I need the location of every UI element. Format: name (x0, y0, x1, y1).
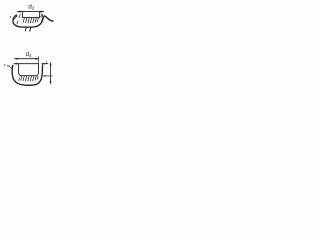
upper dimension line d4 (15, 58, 39, 60)
hatching left of wall (17, 14, 20, 24)
arrowhead right (dim d2) (41, 11, 44, 13)
groove right wall (39, 12, 41, 18)
arrowhead top (t) (50, 63, 52, 66)
arrowhead bottom (t) (50, 81, 52, 84)
arrowhead left (dim d2) (17, 11, 20, 13)
arrowhead left on surface line (14, 63, 17, 65)
dimension line d2 (18, 11, 44, 13)
shoulder surface line right (42, 63, 48, 65)
hatching below floor (bottom fig) (21, 76, 38, 81)
arrowhead on shoulder line (42, 63, 45, 65)
groove floor (23, 17, 40, 19)
groove profile (bottom fig) (19, 64, 39, 76)
hatch ticks below break line (25, 28, 30, 31)
hatching below floor (23, 18, 38, 23)
extension line right (38, 57, 40, 64)
freehand break outline (bottom fig) (12, 65, 42, 85)
arrowhead left (dim d4) (14, 58, 17, 60)
radius leader arrow (top fig) (13, 16, 17, 20)
vertical dimension line t (right) (50, 63, 52, 84)
hatching left of wall (bottom fig) (18, 78, 21, 81)
freehand break outline (top fig) (13, 15, 53, 27)
arrowhead right (dim d4) (35, 58, 38, 60)
groove left wall (22, 12, 24, 18)
radius leader arrow (bottom fig) (7, 65, 12, 68)
surface / dimension line (bottom fig) (14, 63, 39, 65)
small dimension line with left arrow (groove bottom, right side) (43, 75, 52, 77)
hatching right of wall (41, 14, 43, 22)
